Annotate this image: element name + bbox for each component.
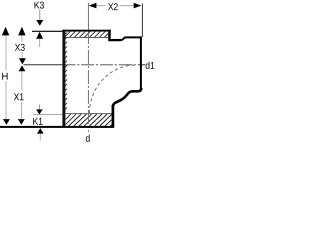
X2 label [108,3,118,10]
X1 bottom arrow [18,119,25,125]
horizontal centerline tick to d1 [140,64,145,66]
H dimension stems [5,35,7,119]
X2 right arrow [134,3,142,9]
pipe branch fitting dimension drawing [0,0,160,148]
X2 left arrow [89,3,97,9]
X1 label [14,93,24,100]
top extension line (fitting top edge level) [32,31,62,32]
X3 top arrow [18,27,25,36]
X3 down arrow [19,58,26,64]
K1 stems [38,105,40,110]
X1 up arrow [19,65,26,71]
X2 right extension line [141,3,143,37]
H top arrow [2,27,9,36]
socket top profile: notch floor, ramp, flat [109,39,122,41]
fitting bottom edge + left extension line [0,126,114,128]
K1 up arrow [37,128,44,134]
fitting top edge [62,30,110,32]
wall serration ticks [65,32,68,110]
K3 stems [39,10,41,21]
d label [86,135,90,142]
step wall at branch root [108,30,111,41]
vertical centerline: top extension for X2 [87,3,89,30]
X2 dimension line [96,5,134,7]
X3/X1 dimension stems [21,35,24,119]
horizontal centerline dash-dot [62,64,140,66]
hatch top band bottom boundary line [65,36,108,38]
K1 label [33,118,42,125]
socket underside S-curve [113,88,141,107]
H label [2,73,7,80]
hatch bottom band top boundary line [65,113,111,115]
inner bore dashed arc [90,65,137,113]
horizontal centerline extension (left, X3/X1) [24,64,63,66]
X3 label [15,44,25,51]
K3 down arrow [36,20,43,26]
insertion depth extension line (left, faint) [33,114,62,116]
K1 down arrow [36,109,43,114]
K3 label [35,2,44,9]
fitting left wall [62,30,65,127]
hatch top band [65,31,109,37]
K3 up arrow [36,32,43,39]
bottom spigot right edge [112,105,115,127]
H bottom arrow [3,119,10,125]
d1 label [146,62,155,69]
right face of branch socket [140,36,142,89]
hatch bottom band [65,114,111,126]
vertical centerline dash-dot [87,30,89,132]
